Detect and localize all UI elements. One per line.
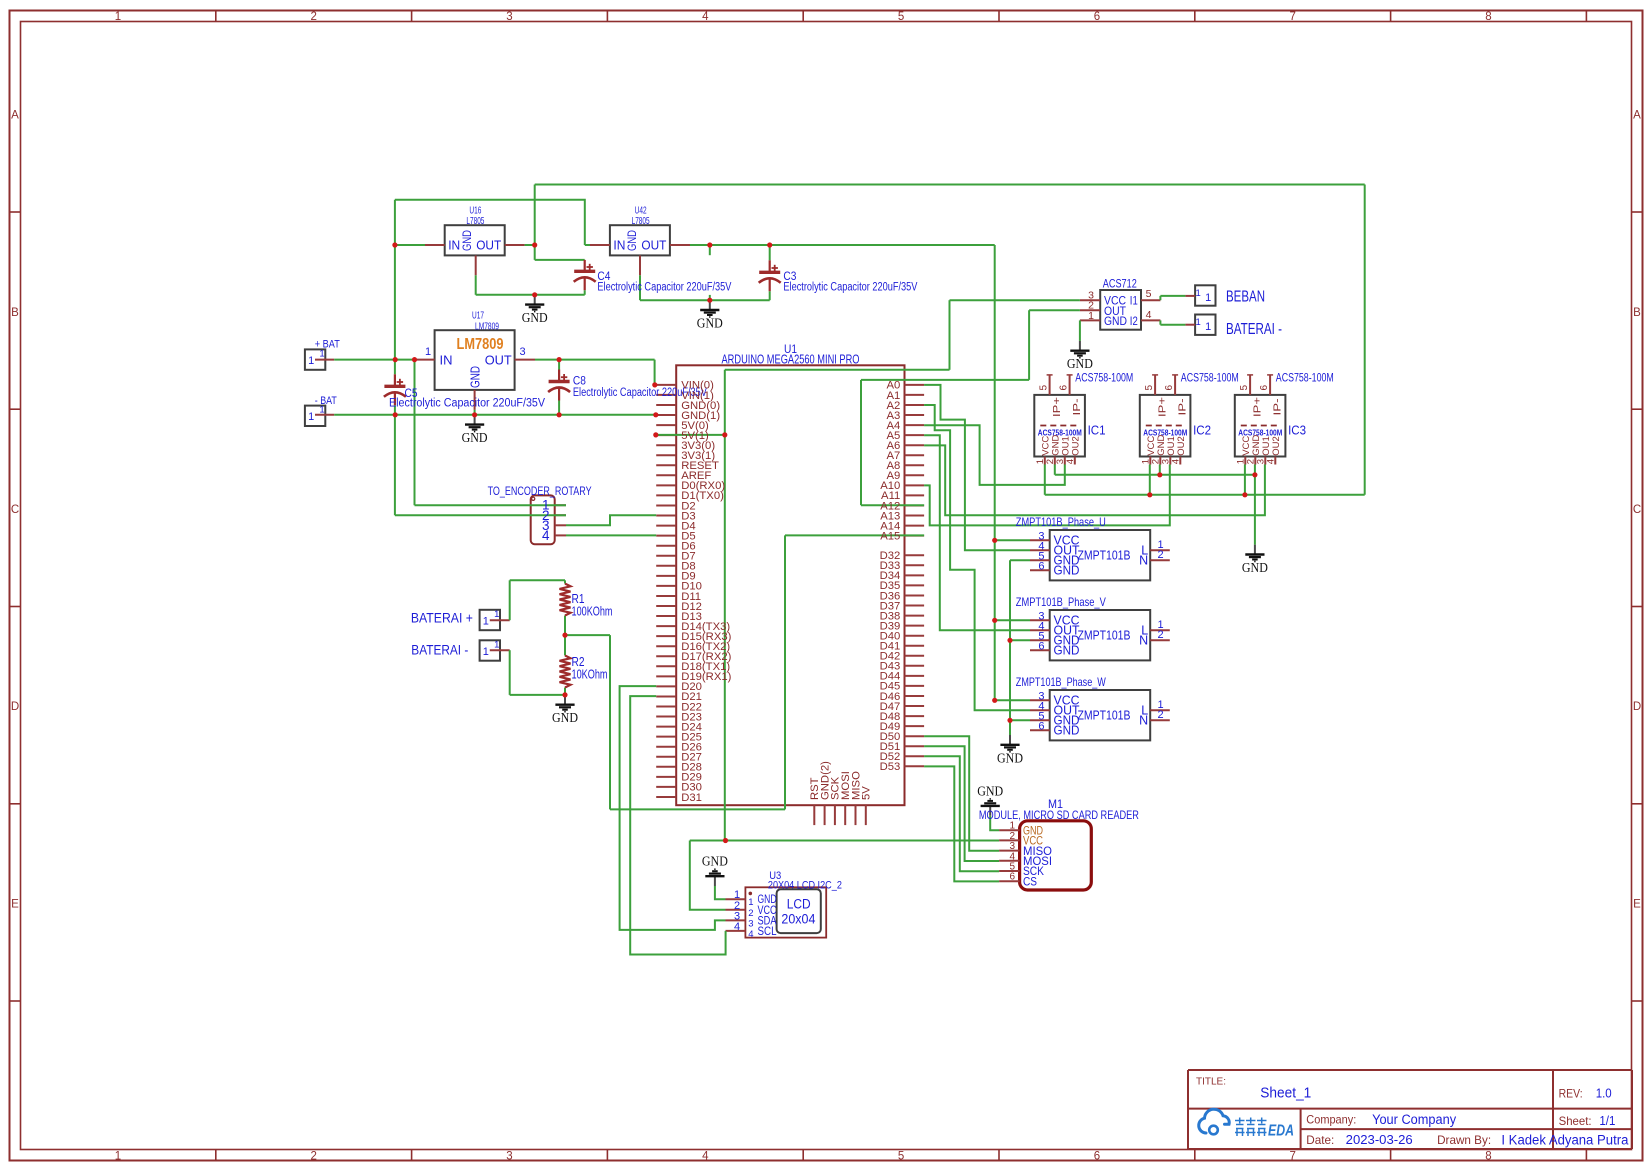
svg-text:1: 1 (748, 897, 753, 908)
svg-text:ZMPT101B: ZMPT101B (1078, 628, 1131, 643)
svg-text:IP+: IP+ (1157, 397, 1169, 417)
svg-text:10KOhm: 10KOhm (572, 668, 608, 682)
svg-text:2: 2 (310, 11, 316, 23)
svg-text:N: N (1139, 714, 1148, 728)
svg-text:D31: D31 (681, 792, 702, 804)
svg-text:TO_ENCODER_ROTARY: TO_ENCODER_ROTARY (488, 486, 592, 498)
svg-text:ZMPT101B: ZMPT101B (1078, 548, 1131, 563)
svg-text:2: 2 (310, 1151, 316, 1163)
svg-text:IP+: IP+ (1252, 397, 1264, 417)
svg-text:5V: 5V (861, 786, 873, 800)
svg-text:BATERAI -: BATERAI - (411, 642, 468, 658)
svg-text:IN: IN (448, 239, 460, 253)
svg-text:GND: GND (1054, 564, 1080, 578)
svg-text:4: 4 (702, 11, 709, 23)
svg-text:4: 4 (748, 929, 753, 940)
svg-text:IC1: IC1 (1088, 424, 1106, 438)
svg-text:5: 5 (1038, 385, 1049, 391)
svg-text:OUT: OUT (641, 239, 666, 253)
svg-text:4: 4 (702, 1151, 709, 1163)
svg-text:GND: GND (697, 316, 723, 331)
svg-text:IP-: IP- (1272, 398, 1284, 416)
svg-text:4: 4 (1146, 309, 1152, 321)
svg-text:6: 6 (1259, 385, 1270, 391)
svg-text:L7805: L7805 (632, 215, 650, 227)
svg-text:E: E (11, 899, 19, 911)
svg-text:6: 6 (1058, 385, 1069, 391)
svg-text:6: 6 (1038, 720, 1044, 732)
svg-text:2: 2 (1158, 709, 1164, 721)
svg-text:REV:: REV: (1559, 1087, 1583, 1101)
svg-text:1: 1 (483, 615, 489, 627)
svg-text:6: 6 (1094, 1151, 1100, 1163)
svg-text:IP+: IP+ (1051, 397, 1063, 417)
svg-text:IN: IN (440, 353, 453, 368)
svg-text:3: 3 (748, 918, 753, 929)
svg-text:B: B (11, 307, 19, 319)
svg-text:SCL: SCL (758, 926, 778, 938)
svg-text:2: 2 (1158, 549, 1164, 561)
svg-text:100KOhm: 100KOhm (572, 605, 613, 619)
svg-text:GND: GND (460, 230, 474, 251)
svg-text:ZMPT101B_Phase_U: ZMPT101B_Phase_U (1016, 515, 1106, 529)
svg-text:1: 1 (1205, 292, 1211, 304)
svg-text:A15: A15 (880, 530, 900, 542)
svg-text:6: 6 (1009, 872, 1015, 883)
svg-text:6: 6 (1038, 640, 1044, 652)
svg-text:D: D (11, 701, 19, 713)
svg-text:GND: GND (1104, 314, 1127, 328)
svg-text:Sheet:: Sheet: (1559, 1114, 1592, 1128)
svg-text:IC3: IC3 (1288, 424, 1306, 438)
svg-text:GND: GND (977, 783, 1003, 798)
svg-text:1: 1 (319, 348, 324, 359)
svg-text:2: 2 (748, 908, 753, 919)
svg-text:- BAT: - BAT (315, 395, 337, 407)
svg-text:7: 7 (1289, 11, 1295, 23)
svg-text:4: 4 (734, 921, 740, 933)
svg-text:1/1: 1/1 (1599, 1113, 1615, 1128)
svg-text:Electrolytic Capacitor 220uF/3: Electrolytic Capacitor 220uF/35V (597, 282, 731, 294)
svg-text:GND: GND (702, 854, 728, 869)
svg-text:OU2: OU2 (1176, 436, 1187, 456)
svg-text:IP-: IP- (1177, 398, 1189, 416)
svg-text:L7805: L7805 (466, 215, 484, 227)
svg-text:IP-: IP- (1071, 398, 1083, 416)
svg-text:MODULE, MICRO SD CARD READER: MODULE, MICRO SD CARD READER (979, 810, 1139, 822)
svg-text:GND: GND (1242, 560, 1268, 575)
svg-text:6: 6 (1094, 11, 1100, 23)
svg-text:5: 5 (1144, 385, 1155, 391)
svg-text:C: C (1633, 504, 1641, 516)
svg-text:LM7809: LM7809 (475, 320, 499, 332)
svg-text:6: 6 (1164, 385, 1175, 391)
svg-text:4: 4 (1065, 459, 1076, 464)
svg-text:1: 1 (115, 1151, 121, 1163)
svg-text:Electrolytic Capacitor 220uF/3: Electrolytic Capacitor 220uF/35V (783, 282, 917, 294)
svg-text:GND: GND (1054, 644, 1080, 658)
svg-text:GND: GND (625, 230, 639, 251)
svg-text:4: 4 (1265, 459, 1276, 464)
svg-text:ACS758-100M: ACS758-100M (1276, 371, 1334, 385)
svg-text:Company:: Company: (1306, 1113, 1356, 1127)
svg-text:OU2: OU2 (1271, 436, 1282, 456)
svg-text:1: 1 (483, 646, 489, 658)
svg-text:1: 1 (308, 411, 314, 423)
svg-text:2: 2 (1158, 629, 1164, 641)
svg-text:ACS758-100M: ACS758-100M (1181, 371, 1239, 385)
svg-text:1: 1 (1088, 310, 1094, 322)
svg-text:I Kadek Adyana Putra: I Kadek Adyana Putra (1501, 1133, 1628, 1148)
svg-text:OUT: OUT (485, 353, 512, 368)
svg-text:Your Company: Your Company (1372, 1112, 1456, 1127)
svg-text:GND: GND (522, 310, 548, 325)
svg-text:TITLE:: TITLE: (1196, 1075, 1226, 1087)
svg-text:B: B (1633, 307, 1641, 319)
svg-text:I1: I1 (1130, 294, 1138, 308)
svg-text:C: C (11, 504, 19, 516)
svg-text:ZMPT101B_Phase_V: ZMPT101B_Phase_V (1016, 595, 1106, 609)
svg-text:2023-03-26: 2023-03-26 (1346, 1132, 1413, 1147)
svg-text:BEBAN: BEBAN (1226, 289, 1265, 306)
svg-text:4: 4 (1170, 459, 1181, 464)
svg-text:GND: GND (1067, 356, 1093, 371)
svg-text:1: 1 (494, 609, 499, 620)
svg-text:3: 3 (506, 11, 512, 23)
svg-text:A: A (1633, 110, 1641, 122)
svg-text:N: N (1139, 634, 1148, 648)
svg-text:E: E (1633, 899, 1641, 911)
svg-text:4: 4 (542, 528, 550, 543)
svg-text:1: 1 (115, 11, 121, 23)
svg-text:ZMPT101B: ZMPT101B (1078, 708, 1131, 723)
svg-text:5: 5 (1146, 288, 1152, 300)
svg-text:6: 6 (1038, 560, 1044, 572)
svg-text:1: 1 (425, 346, 431, 358)
svg-text:Electrolytic Capacitor 220uF/3: Electrolytic Capacitor 220uF/35V (389, 398, 545, 410)
svg-text:D: D (1633, 701, 1641, 713)
svg-text:I2: I2 (1130, 314, 1138, 328)
svg-text:LM7809: LM7809 (457, 336, 504, 353)
svg-text:1: 1 (319, 405, 324, 416)
svg-text:A: A (11, 110, 19, 122)
svg-text:Drawn By:: Drawn By: (1437, 1133, 1491, 1147)
svg-text:20x04: 20x04 (781, 912, 815, 927)
svg-text:BATERAI +: BATERAI + (411, 609, 473, 625)
svg-text:GND: GND (462, 430, 488, 445)
svg-text:N: N (1139, 554, 1148, 568)
svg-text:3: 3 (519, 346, 525, 358)
svg-text:1: 1 (494, 639, 499, 650)
svg-text:1.0: 1.0 (1596, 1086, 1612, 1101)
svg-text:ARDUINO MEGA2560 MINI PRO: ARDUINO MEGA2560 MINI PRO (722, 352, 860, 366)
svg-text:EDA: EDA (1268, 1123, 1294, 1140)
svg-text:CS: CS (1023, 874, 1037, 888)
svg-text:Sheet_1: Sheet_1 (1260, 1086, 1311, 1102)
svg-text:OUT: OUT (476, 239, 501, 253)
svg-text:GND: GND (997, 750, 1023, 765)
svg-text:LCD: LCD (787, 897, 811, 912)
svg-text:GND: GND (552, 710, 578, 725)
svg-text:Date:: Date: (1306, 1133, 1334, 1147)
svg-text:8: 8 (1485, 11, 1491, 23)
svg-text:OU2: OU2 (1070, 436, 1081, 456)
svg-text:GND: GND (469, 366, 483, 388)
svg-text:IN: IN (613, 239, 625, 253)
svg-text:1: 1 (308, 355, 314, 367)
svg-text:GND: GND (1054, 724, 1080, 738)
svg-text:5: 5 (898, 11, 904, 23)
svg-text:1: 1 (1196, 317, 1201, 328)
svg-text:C8: C8 (573, 375, 586, 387)
svg-text:8: 8 (1485, 1151, 1491, 1163)
svg-text:3: 3 (506, 1151, 512, 1163)
svg-text:IC2: IC2 (1193, 424, 1211, 438)
svg-text:1: 1 (1196, 288, 1201, 299)
svg-text:ACS758-100M: ACS758-100M (1075, 371, 1133, 385)
svg-text:D53: D53 (880, 761, 901, 773)
svg-text:ACS712: ACS712 (1103, 279, 1137, 291)
svg-text:1: 1 (1205, 321, 1211, 333)
svg-text:20X04 LCD I2C_2: 20X04 LCD I2C_2 (768, 880, 842, 892)
svg-text:BATERAI -: BATERAI - (1226, 321, 1282, 338)
svg-text:5: 5 (898, 1151, 904, 1163)
svg-text:ZMPT101B_Phase_W: ZMPT101B_Phase_W (1016, 675, 1107, 689)
svg-text:7: 7 (1289, 1151, 1295, 1163)
svg-text:5: 5 (1239, 385, 1250, 391)
